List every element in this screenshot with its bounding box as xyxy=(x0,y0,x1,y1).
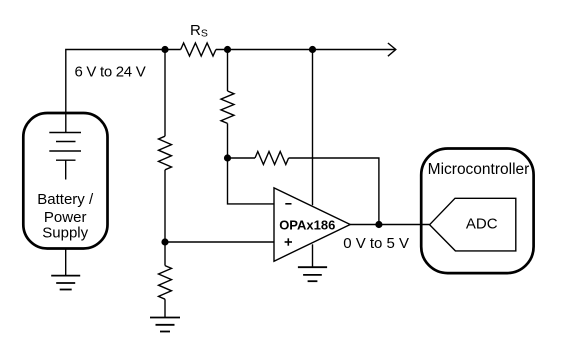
wire left divider lower xyxy=(164,170,166,266)
svg-text:Battery /: Battery / xyxy=(37,191,94,208)
battery cell long plate 2 xyxy=(49,150,81,152)
wire inverting input xyxy=(228,158,275,204)
node junction dot output xyxy=(375,221,382,228)
op-amp plus input sign xyxy=(285,238,292,245)
wire V+ supply pin xyxy=(312,50,314,206)
wire top rail right segment xyxy=(216,49,396,51)
wire battery to ground xyxy=(65,248,67,276)
resistor gain top xyxy=(221,91,234,123)
svg-text:Microcontroller: Microcontroller xyxy=(428,161,530,178)
wire middle branch upper xyxy=(227,50,229,92)
ground divider xyxy=(150,318,180,332)
ground battery xyxy=(51,276,80,290)
wire left divider upper xyxy=(164,50,166,137)
resistor RS xyxy=(181,43,216,56)
node junction dot feedback xyxy=(224,154,231,161)
svg-text:6 V to 24 V: 6 V to 24 V xyxy=(75,64,146,81)
svg-text:OPAx186: OPAx186 xyxy=(279,218,335,233)
op-amp minus input sign xyxy=(285,203,291,205)
ground op-amp xyxy=(298,267,327,281)
svg-text:ADC: ADC xyxy=(466,216,498,233)
op-amp U1 triangle xyxy=(274,188,350,261)
battery negative stem xyxy=(65,160,67,179)
node junction dot rail-left xyxy=(161,46,168,53)
resistor feedback xyxy=(255,152,289,165)
node junction dot rail-supply xyxy=(309,46,316,53)
svg-text:0 V to 5 V: 0 V to 5 V xyxy=(343,235,409,252)
ADC block pentagon xyxy=(430,198,516,251)
wire middle branch lower xyxy=(227,123,229,158)
battery cell short plate 1 xyxy=(56,141,76,143)
resistor divider bottom xyxy=(159,266,172,300)
wire output to ADC xyxy=(350,224,429,226)
wire noninverting input xyxy=(165,241,274,243)
arrowhead output xyxy=(388,43,396,56)
wire feedback to output xyxy=(289,158,379,225)
node junction dot divider-tap xyxy=(161,238,168,245)
battery cell short plate 2 xyxy=(56,159,76,161)
node junction dot rail-mid xyxy=(224,46,231,53)
microcontroller box outline xyxy=(421,149,533,274)
wire top rail left segment xyxy=(66,50,181,133)
wire feedback lead xyxy=(228,157,256,159)
battery cell long plate 1 xyxy=(49,132,81,134)
battery box outline xyxy=(23,113,107,249)
wire V- supply pin xyxy=(312,244,314,267)
wire to ground divider xyxy=(164,299,166,317)
resistor divider top xyxy=(159,136,172,170)
svg-text:Supply: Supply xyxy=(42,225,88,242)
